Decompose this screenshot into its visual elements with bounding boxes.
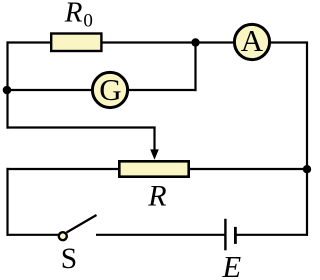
switch lever bbox=[67, 215, 97, 233]
wire left lower vertical bbox=[6, 168, 8, 236]
node junction left (7.5,90) bbox=[3, 86, 12, 95]
wire right vertical bbox=[306, 42, 308, 236]
wiper arrow head bbox=[150, 149, 159, 159]
wire bottom-right from battery bbox=[237, 234, 309, 236]
wire top-left horizontal bbox=[7, 41, 53, 43]
battery E short plate bbox=[234, 227, 237, 244]
battery E long plate bbox=[224, 219, 226, 251]
wire top-right horizontal bbox=[270, 41, 308, 43]
wire wiper branch horizontal bbox=[7, 126, 156, 128]
wire rheostat left horizontal bbox=[7, 168, 120, 170]
resistor R0 bbox=[51, 34, 101, 52]
wire bottom-left horizontal to switch bbox=[7, 234, 59, 236]
svg-text:E: E bbox=[222, 250, 242, 280]
wire bottom middle from switch to battery bbox=[96, 234, 225, 236]
svg-text:0: 0 bbox=[83, 10, 93, 31]
rheostat R bbox=[119, 161, 188, 176]
svg-text:R: R bbox=[147, 179, 166, 212]
galvanometer G bbox=[92, 72, 127, 107]
svg-text:A: A bbox=[241, 23, 264, 58]
wire wiper vertical bbox=[153, 127, 155, 152]
wire galvanometer right horizontal bbox=[127, 89, 197, 91]
ammeter A bbox=[234, 24, 269, 59]
wire top horizontal between R0 and ammeter bbox=[101, 41, 234, 43]
svg-text:G: G bbox=[99, 72, 121, 107]
wire left upper vertical bbox=[6, 41, 8, 128]
svg-text:S: S bbox=[61, 243, 77, 275]
svg-text:R: R bbox=[64, 0, 83, 29]
node junction top (195.5,42.5) bbox=[191, 38, 199, 46]
wire rheostat right horizontal bbox=[189, 168, 308, 170]
node junction right (307,169) bbox=[303, 165, 311, 173]
wire galvanometer left horizontal bbox=[8, 89, 94, 91]
switch S bbox=[59, 232, 67, 240]
wire vertical from node to galvanometer wire bbox=[194, 43, 196, 92]
